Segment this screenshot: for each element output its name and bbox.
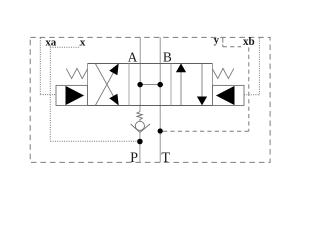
port line P (to check valve) — [139, 106, 141, 112]
cell3 up arrow — [180, 66, 182, 106]
junction dot on T wire — [158, 128, 163, 133]
svg-text:xb: xb — [243, 36, 255, 48]
node dot on A wire — [137, 82, 143, 88]
solenoid triangle left — [66, 86, 85, 105]
node dot on B wire — [157, 82, 163, 88]
check valve seat — [131, 124, 151, 132]
svg-text:B: B — [163, 50, 172, 65]
check valve spring — [137, 112, 142, 122]
solenoid box right — [213, 85, 245, 105]
enclosure dashed boundary — [30, 37, 270, 162]
drain line y riser (near-solid) — [222, 37, 224, 46]
svg-text:x: x — [80, 37, 86, 49]
svg-text:P: P — [130, 150, 138, 166]
svg-text:T: T — [161, 150, 170, 166]
pilot line x (fine dotted, to check valve junction) — [50, 45, 137, 142]
spring left — [66, 68, 87, 78]
valve body V1: top and bottom edges — [88, 64, 213, 106]
pilot line xb (fine dotted, to right solenoid) — [244, 38, 260, 95]
valve cell borders — [129, 64, 171, 106]
junction dot on P wire — [137, 139, 143, 145]
pilot line xa (fine dotted, to left solenoid) — [40, 38, 56, 95]
svg-text:A: A — [128, 50, 138, 65]
port line B — [159, 37, 161, 105]
valve body V1: end edges — [88, 64, 213, 106]
wire P below check valve — [139, 132, 141, 162]
solenoid box left — [56, 85, 88, 105]
cell3 down arrow — [201, 64, 203, 103]
arrowhead cell1 top — [109, 63, 118, 75]
svg-text:y: y — [214, 34, 220, 46]
drain line y (dashed) — [163, 47, 249, 132]
spring right — [213, 68, 234, 78]
cell2 connector wire — [140, 84, 160, 86]
port line A — [139, 37, 141, 105]
check valve ball circle — [135, 121, 144, 130]
port line T — [159, 106, 161, 163]
cell1 crossed flow arrows — [95, 64, 118, 106]
solenoid triangle right — [216, 86, 235, 105]
svg-text:xa: xa — [45, 37, 56, 49]
arrowhead cell1 bottom — [109, 94, 118, 106]
